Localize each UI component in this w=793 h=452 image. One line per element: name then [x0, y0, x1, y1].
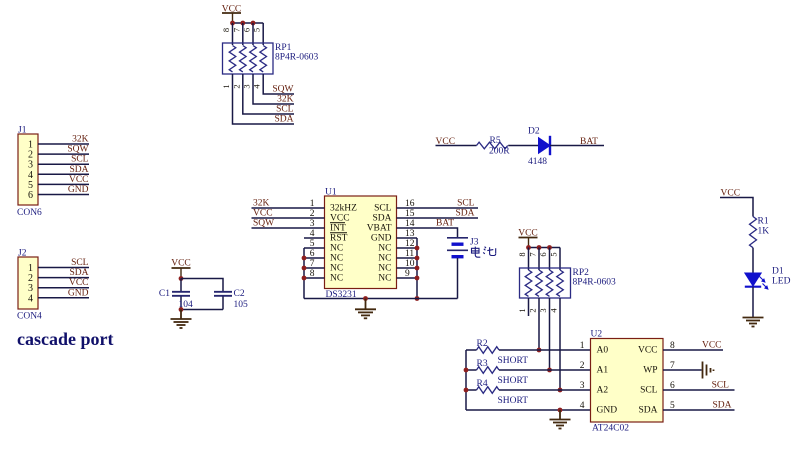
- svg-text:WP: WP: [643, 366, 657, 376]
- svg-text:SHORT: SHORT: [498, 376, 529, 386]
- wire U2 pin8 VCC: [663, 349, 723, 351]
- wire U1 pin14 VBAT to battery: [397, 228, 458, 238]
- svg-text:NC: NC: [378, 244, 391, 254]
- wire RP1 pin1 to SDA: [233, 74, 295, 124]
- resistor R4: [477, 387, 500, 394]
- capacitor C1: [172, 279, 190, 310]
- svg-text:RP1: RP1: [275, 43, 292, 53]
- svg-text:R5: R5: [490, 136, 501, 146]
- svg-text:R1: R1: [758, 217, 769, 227]
- svg-text:D2: D2: [528, 127, 540, 137]
- resistor R3: [477, 367, 500, 374]
- wire D1 to ground: [752, 287, 754, 317]
- svg-text:SCL: SCL: [374, 204, 392, 214]
- svg-text:R3: R3: [477, 359, 488, 369]
- svg-text:A1: A1: [597, 366, 609, 376]
- connector J2: [18, 249, 38, 310]
- wire R3 to U2 pin2: [499, 369, 591, 371]
- pin numbers 1 2 3 4 (RP2 bottom): [517, 308, 559, 313]
- pin numbers 8 7 6 5 (RP1 top): [221, 28, 262, 32]
- label R5 200R: [489, 136, 510, 157]
- wire RP2 pin1 stub: [528, 298, 530, 316]
- resistor pack RP1: [223, 43, 274, 74]
- svg-text:GND: GND: [68, 185, 89, 195]
- wire J2 pins: [38, 268, 89, 298]
- svg-text:5: 5: [252, 28, 262, 32]
- wire R2 to U2 pin1: [499, 349, 591, 351]
- svg-text:SDA: SDA: [712, 401, 731, 411]
- wire RP1 pin2 to SCL: [243, 74, 294, 114]
- svg-text:32K: 32K: [277, 95, 294, 105]
- wire RP2 pin4 to A2: [559, 298, 561, 390]
- U1 right pin numbers 16-9: [405, 199, 415, 279]
- svg-text:4: 4: [580, 401, 585, 411]
- wire C2 bottom to C1: [181, 309, 223, 311]
- wire U2 pin7 WP: [663, 369, 702, 371]
- svg-text:6: 6: [242, 28, 252, 32]
- ground (WP, rotated bar style): [703, 362, 714, 379]
- svg-text:2: 2: [580, 361, 585, 371]
- svg-text:R2: R2: [477, 339, 488, 349]
- svg-text:NC: NC: [330, 274, 343, 284]
- wire VCC to R5: [436, 145, 477, 147]
- svg-text:cascade port: cascade port: [17, 329, 113, 349]
- resistor R2: [477, 347, 500, 354]
- svg-text:3: 3: [580, 381, 585, 391]
- svg-text:VCC: VCC: [638, 346, 658, 356]
- wire RP2 pin2 to A0: [538, 298, 540, 350]
- svg-text:VBAT: VBAT: [367, 224, 392, 234]
- svg-text:RST: RST: [330, 234, 348, 244]
- svg-text:SQW: SQW: [253, 219, 274, 229]
- wire J1 pins: [38, 144, 89, 195]
- svg-text:8: 8: [517, 252, 527, 256]
- svg-text:8P4R-0603: 8P4R-0603: [573, 278, 617, 288]
- label RP2 8P4R-0603: [573, 268, 617, 288]
- diode D2: [539, 136, 551, 155]
- svg-text:4: 4: [28, 293, 33, 304]
- U1 right pin names: [367, 204, 392, 284]
- label 电池: [472, 247, 496, 258]
- wire U1 pin15 SDA: [397, 217, 479, 219]
- svg-text:1: 1: [221, 84, 231, 88]
- wire RP2 top pins: [529, 248, 561, 271]
- resistor R5: [477, 142, 508, 149]
- svg-text:32K: 32K: [253, 199, 270, 209]
- wire U1 pins 5-8 tie: [304, 248, 325, 299]
- svg-text:NC: NC: [378, 264, 391, 274]
- wire left rail R2-R4: [466, 350, 477, 410]
- wire GND row to U2 pin4: [466, 409, 591, 411]
- svg-text:NC: NC: [378, 254, 391, 264]
- svg-text:105: 105: [234, 300, 249, 310]
- capacitor C2: [214, 292, 232, 310]
- svg-text:200R: 200R: [489, 147, 510, 157]
- svg-text:VCC: VCC: [330, 214, 350, 224]
- svg-text:BAT: BAT: [580, 137, 598, 147]
- label D2 4148: [528, 127, 547, 168]
- wire VCC bus above RP1: [233, 22, 264, 24]
- svg-text:SQW: SQW: [272, 85, 293, 95]
- svg-text:NC: NC: [330, 244, 343, 254]
- junction dot C1 top: [179, 276, 184, 281]
- svg-text:A0: A0: [597, 346, 609, 356]
- svg-text:GND: GND: [597, 406, 618, 416]
- svg-text:7: 7: [528, 252, 538, 256]
- IC U2 AT24C02: [591, 330, 664, 423]
- svg-text:GND: GND: [68, 288, 89, 298]
- svg-text:AT24C02: AT24C02: [592, 424, 629, 434]
- resistor pack RP2: [520, 268, 571, 298]
- resistor R1: [750, 217, 757, 248]
- wire U1 pins 12-9 tie: [397, 238, 418, 299]
- svg-text:5: 5: [549, 252, 559, 256]
- LED D1: [745, 273, 768, 289]
- svg-text:SQW: SQW: [67, 145, 88, 155]
- wire R5 to D2: [508, 145, 538, 147]
- svg-text:SCL: SCL: [640, 386, 658, 396]
- wire U2 pin5 SDA: [663, 409, 735, 411]
- svg-text:CON4: CON4: [17, 312, 42, 322]
- svg-text:NC: NC: [378, 274, 391, 284]
- svg-text:VCC: VCC: [69, 175, 89, 185]
- svg-text:8: 8: [221, 28, 231, 32]
- svg-text:32kHZ: 32kHZ: [330, 204, 357, 214]
- svg-text:1K: 1K: [758, 227, 770, 237]
- svg-text:6: 6: [538, 252, 548, 256]
- label R1 1K: [758, 217, 770, 237]
- junction dots U1 left NC: [302, 256, 307, 281]
- power VCC (RP2): [518, 229, 538, 248]
- junction dots above RP1: [230, 21, 255, 26]
- svg-text:1: 1: [580, 341, 585, 351]
- svg-text:BAT: BAT: [436, 219, 454, 229]
- svg-text:D1: D1: [772, 267, 784, 277]
- U2 right pin names: [638, 346, 658, 416]
- label RP1 8P4R-0603: [275, 43, 319, 63]
- wire U2 pin6 SCL: [663, 389, 735, 391]
- label D1 LED: [772, 267, 791, 287]
- svg-text:1: 1: [517, 308, 527, 312]
- svg-text:VCC: VCC: [702, 341, 722, 351]
- svg-text:7: 7: [231, 28, 241, 32]
- junction dot C1 bottom: [179, 307, 184, 312]
- IC U1 DS3231: [325, 188, 397, 289]
- wire RP1 top pins: [233, 23, 264, 45]
- U1 INT RST overlines: [330, 223, 347, 233]
- ground (U2): [550, 410, 571, 429]
- svg-text:SCL: SCL: [457, 199, 475, 209]
- ground (U1): [355, 299, 376, 319]
- svg-text:SDA: SDA: [455, 209, 474, 219]
- svg-text:SCL: SCL: [71, 258, 89, 268]
- junction dots U1 right NC: [415, 246, 420, 301]
- svg-text:SCL: SCL: [712, 381, 730, 391]
- svg-text:SHORT: SHORT: [498, 356, 529, 366]
- svg-text:R4: R4: [477, 379, 488, 389]
- svg-text:32K: 32K: [72, 135, 89, 145]
- wire U1 pin3 (SQW): [252, 227, 325, 229]
- power VCC (C1 C2): [171, 259, 191, 279]
- wire U1 pin16 SCL: [397, 207, 479, 209]
- ground (C1 C2): [171, 310, 192, 329]
- svg-text:SHORT: SHORT: [498, 396, 529, 406]
- wire RP1 pin4 to SQW: [263, 74, 294, 94]
- wire VCC to R1: [720, 198, 753, 217]
- connector J1: [18, 126, 38, 206]
- label R2 SHORT: [477, 339, 529, 366]
- svg-text:C2: C2: [234, 289, 245, 299]
- wire U1 pin1 (32K): [252, 207, 325, 209]
- svg-text:VCC: VCC: [69, 278, 89, 288]
- svg-text:SDA: SDA: [372, 214, 391, 224]
- power VCC (top of RP1): [222, 5, 242, 24]
- svg-text:A2: A2: [597, 386, 609, 396]
- svg-text:NC: NC: [330, 264, 343, 274]
- U2 left pin numbers: [580, 341, 585, 411]
- svg-text:4148: 4148: [528, 157, 547, 167]
- U1 left pin numbers 1-8: [310, 199, 315, 279]
- svg-text:VCC: VCC: [253, 209, 273, 219]
- svg-text:J3: J3: [470, 238, 479, 248]
- junction dot GND row: [558, 408, 563, 413]
- svg-text:SDA: SDA: [69, 165, 88, 175]
- label C1 104: [159, 289, 193, 310]
- label R3 SHORT: [477, 359, 529, 386]
- svg-text:SCL: SCL: [71, 155, 89, 165]
- svg-text:NC: NC: [330, 254, 343, 264]
- wire VCC bus above RP2: [529, 247, 561, 249]
- svg-text:GND: GND: [371, 234, 392, 244]
- wire RP2 pin3 to A1: [549, 298, 551, 370]
- svg-text:CON6: CON6: [17, 208, 42, 218]
- label C2 105: [234, 289, 249, 310]
- wire U1 ground rail: [304, 298, 458, 300]
- ground (D1): [743, 318, 764, 327]
- junction dots RP2 columns: [537, 348, 563, 393]
- U1 left pin names: [330, 204, 357, 284]
- wire D2 to BAT: [550, 145, 604, 147]
- svg-text:8P4R-0603: 8P4R-0603: [275, 53, 319, 63]
- wire U1 pin2 (VCC): [252, 217, 325, 219]
- svg-text:LED: LED: [772, 277, 791, 287]
- svg-text:SDA: SDA: [638, 406, 657, 416]
- label R4 SHORT: [477, 379, 529, 406]
- wire R4 to U2 pin3: [499, 389, 591, 391]
- svg-text:6: 6: [28, 190, 33, 201]
- battery J3: [447, 238, 468, 257]
- wire C1 top to C2: [181, 279, 223, 292]
- svg-text:SDA: SDA: [274, 115, 293, 125]
- U2 right pin numbers: [670, 341, 675, 411]
- svg-text:INT: INT: [330, 224, 346, 234]
- svg-text:SCL: SCL: [276, 105, 294, 115]
- U2 left pin names: [597, 346, 618, 416]
- pin numbers 1 2 3 4 (RP1 bottom): [221, 84, 262, 89]
- svg-text:RP2: RP2: [573, 268, 590, 278]
- svg-text:C1: C1: [159, 289, 170, 299]
- svg-text:VCC: VCC: [171, 259, 191, 269]
- junction dot ground rail: [363, 296, 368, 301]
- junction dots left rail: [464, 368, 469, 393]
- pin numbers 8 7 6 5 (RP2 top): [517, 252, 559, 256]
- wire U1 pin4 stub: [304, 237, 325, 239]
- wire battery to ground rail: [457, 258, 459, 299]
- wire U1 pin13 GND: [397, 237, 418, 239]
- wire R1 to D1: [752, 248, 754, 273]
- wire RP1 pin3 to 32K: [253, 74, 294, 104]
- svg-text:SDA: SDA: [69, 268, 88, 278]
- junction dots above RP2: [526, 245, 552, 250]
